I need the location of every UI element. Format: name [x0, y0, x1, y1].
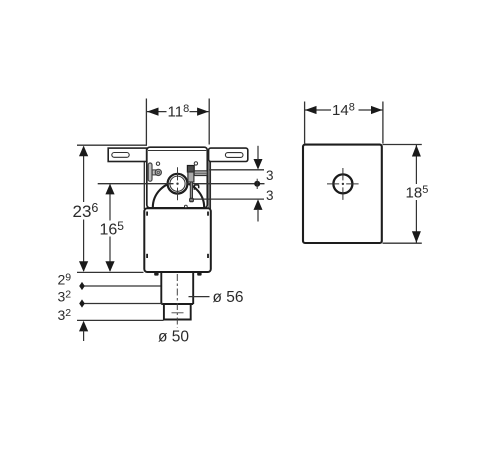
screw hole right — [194, 162, 197, 165]
flush valve cartridge body — [188, 172, 194, 182]
svg-text:185: 185 — [406, 184, 429, 202]
panel dim 14-8 extension line left — [304, 102, 306, 144]
flush valve rod — [190, 182, 192, 199]
dimension 11-8 line right segment — [190, 111, 209, 113]
dome arc (bowl outline) — [153, 182, 204, 208]
panel circle crosshair horizontal — [327, 183, 359, 185]
tank corner clip bottom-right — [207, 254, 209, 258]
dimension 11-8 arrow left — [147, 108, 159, 116]
dimension 11-8 line left segment — [147, 111, 167, 113]
panel circle crosshair vertical — [342, 168, 344, 200]
left mounting bracket — [108, 148, 146, 161]
dim 16-5 arrow top — [105, 184, 114, 195]
fill valve knob inner — [157, 171, 159, 173]
dim 23-6 line upper — [83, 147, 85, 203]
tank corner clip bottom-left — [146, 254, 148, 258]
dim 16-5 line lower — [109, 237, 111, 272]
access panel — [303, 145, 382, 243]
frame inner right line — [208, 151, 210, 208]
dim 23-6 line lower — [83, 220, 85, 272]
dim 3 up arrow — [254, 199, 263, 210]
housing side line right — [209, 162, 211, 210]
dim 23-6 arrow bottom — [79, 261, 88, 272]
flush valve rod foot — [190, 198, 194, 202]
panel circle — [333, 174, 352, 193]
outlet pipe lower (d50) — [161, 304, 193, 320]
panel dim 18-5 extension line bottom — [383, 242, 422, 244]
panel dim 14-8 arrow right — [371, 106, 383, 114]
right bracket slot — [225, 153, 243, 158]
panel dim 14-8 line right segment — [359, 109, 383, 111]
reference line L1 (tank bottom level) — [77, 271, 144, 273]
reference line L2 — [82, 285, 161, 287]
extension line 23-6 top — [77, 144, 147, 146]
svg-text:236: 236 — [73, 201, 99, 221]
svg-text:3: 3 — [266, 168, 274, 183]
panel dim 18-5 arrow top — [412, 145, 421, 157]
svg-text:32: 32 — [58, 307, 72, 323]
reference line L3 — [82, 303, 163, 305]
flush bend circle crosshair horizontal — [98, 183, 174, 185]
frame inner top line — [148, 150, 206, 152]
flush bend center dot — [176, 183, 178, 185]
svg-text:3: 3 — [266, 188, 274, 203]
panel dim 18-5 extension line top — [383, 144, 422, 146]
reference line right part — [186, 183, 264, 185]
fill valve arm — [152, 170, 156, 175]
tank bottom tab right — [197, 272, 201, 276]
panel circle center dot — [342, 183, 344, 185]
dim 3 down arrow — [254, 159, 263, 170]
dim line 3 stack: line 1 — [210, 169, 264, 171]
flush valve side piece — [194, 171, 207, 176]
svg-text:165: 165 — [100, 219, 125, 239]
dim line 3 stack: dot on line 2 — [254, 181, 260, 187]
housing side line left — [143, 162, 145, 210]
svg-text:29: 29 — [58, 271, 72, 287]
dim line 3 stack: dot stub — [256, 179, 258, 189]
dimension 11-8 extension line left — [145, 99, 147, 145]
tank bottom tab left — [154, 272, 158, 276]
dimension 11-8 arrow right — [197, 108, 209, 116]
outlet pipe upper (d56) — [161, 273, 193, 304]
pipe centerline — [176, 274, 178, 328]
flush bend circle crosshair vertical — [177, 167, 179, 200]
diamond on L3 — [79, 299, 85, 307]
fill valve body — [148, 163, 152, 181]
panel dim 18-5 arrow bottom — [412, 231, 421, 243]
svg-text:ø 56: ø 56 — [213, 289, 244, 306]
svg-text:118: 118 — [168, 103, 190, 121]
fill valve knob — [155, 169, 161, 175]
frame box — [147, 147, 208, 208]
screw hole left — [156, 162, 159, 165]
dimension 11-8 extension line right — [208, 99, 210, 145]
dim line 3 stack: line 3 — [193, 198, 265, 200]
svg-text:32: 32 — [58, 288, 72, 304]
panel dim 18-5 line upper — [415, 145, 417, 184]
dim 23-6 arrow top — [79, 146, 88, 157]
tank corner clip top-right — [207, 212, 209, 216]
flush bend inner circle — [170, 176, 185, 191]
svg-text:148: 148 — [332, 101, 355, 119]
flush valve cartridge cap — [187, 166, 194, 173]
d56 leader line — [189, 296, 210, 298]
flush valve side piece inner line — [195, 172, 207, 174]
diamond on L2 — [79, 282, 85, 290]
tank corner clip top-left — [146, 212, 148, 216]
right mounting bracket — [209, 148, 248, 161]
left bracket slot — [112, 153, 129, 158]
flush bend circle — [168, 174, 188, 194]
L4 up arrow — [79, 321, 88, 332]
dim 16-5 line upper — [109, 185, 111, 221]
pipe center tick — [172, 312, 184, 314]
screw hole bottom tab — [185, 205, 188, 208]
svg-text:ø 50: ø 50 — [158, 328, 189, 345]
panel dim 14-8 arrow left — [305, 106, 317, 114]
panel dim 18-5 line lower — [415, 200, 417, 243]
reference line L4 — [77, 319, 164, 321]
overflow tab on dome — [194, 185, 198, 190]
tank box — [144, 208, 211, 272]
panel dim 14-8 line left segment — [305, 109, 331, 111]
dim 16-5 arrow bottom — [105, 261, 114, 272]
panel dim 14-8 extension line right — [382, 102, 384, 144]
